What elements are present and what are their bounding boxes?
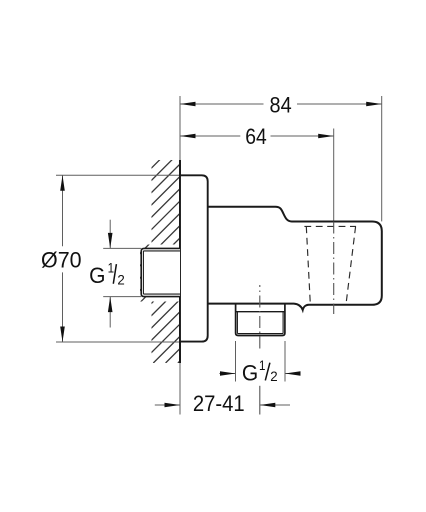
svg-text:1: 1 (108, 259, 114, 275)
svg-text:G: G (89, 264, 105, 289)
outlet nipple G1/2 (bottom) (236, 304, 285, 336)
wall face line (179, 160, 181, 363)
27-41 arrow left-pointing (260, 403, 276, 408)
arrow Ø70 down (60, 327, 65, 343)
extension line top (Ø70, escutcheon top) (56, 174, 180, 176)
outlet centre line (dash-dot) (259, 285, 261, 349)
body and shower holder outline (208, 207, 382, 310)
extension line x=381.7 (84) (381, 96, 383, 221)
dimension line Ø70 (62, 175, 64, 342)
label G1/2 left (89, 259, 125, 288)
G1/2 bottom arrow right (220, 371, 236, 376)
arrow 64 left (180, 134, 196, 139)
svg-text:G: G (242, 361, 258, 386)
hidden holder cone (dashed) (304, 226, 356, 304)
wall hatching (section through wall) (0, 155, 398, 363)
G1/2 bottom: extension lines (219, 341, 300, 382)
outlet nipple shoulder line (236, 311, 285, 313)
svg-text:27-41: 27-41 (193, 392, 245, 416)
G1/2 bottom arrow left (285, 371, 301, 376)
svg-text:2: 2 (270, 369, 277, 384)
svg-text:2: 2 (117, 272, 124, 287)
dimension line 84 (180, 103, 382, 105)
escutcheon (wall flange, side view) (180, 175, 208, 341)
27-41 arrow right-pointing (165, 403, 181, 408)
holder centre line (dash-dot) (333, 222, 335, 315)
svg-text:64: 64 (245, 125, 266, 149)
G1/2 left: leader lines (103, 220, 141, 328)
svg-text:1: 1 (259, 357, 265, 373)
arrow 64 right (318, 134, 334, 139)
extension line bottom (Ø70, escutcheon bottom) (56, 341, 180, 343)
extension line x=333.7 (64) (333, 129, 335, 222)
G1/2 left arrow up (108, 297, 113, 313)
arrow 84 left (180, 102, 196, 107)
inlet nipple inner thread lines (143, 251, 180, 294)
dimension line 64 (180, 135, 334, 137)
arrow 84 right (366, 102, 382, 107)
extension line x=180 (wall face / dims 84,64,27-41) (179, 96, 181, 415)
outlet nipple inner thread lines (237, 312, 283, 334)
dimension 27-41 arrows (155, 404, 290, 406)
arrow Ø70 up (60, 175, 65, 191)
inlet nipple G1/2 (in wall) (141, 248, 180, 296)
G1/2 left arrow down (108, 233, 113, 249)
label G1/2 bottom (242, 357, 278, 386)
outlet centre line lower part / 27-41 extension (259, 386, 261, 415)
svg-text:84: 84 (270, 94, 292, 118)
svg-text:Ø70: Ø70 (41, 247, 82, 272)
